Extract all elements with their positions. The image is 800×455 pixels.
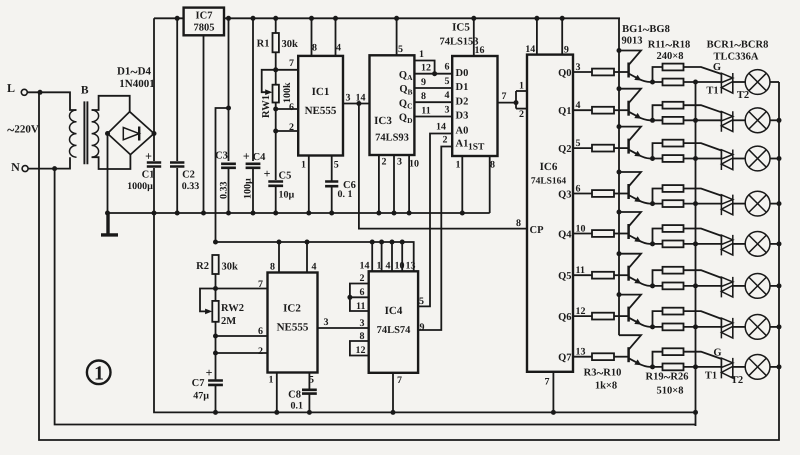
svg-text:Q2: Q2 bbox=[558, 144, 571, 155]
resistor R13 bbox=[663, 140, 684, 147]
svg-text:C3: C3 bbox=[215, 151, 228, 162]
wire R14 to BCR4 gate bbox=[684, 189, 722, 196]
node IC2 pin8 rail bbox=[277, 240, 282, 245]
svg-text:C2: C2 bbox=[182, 170, 195, 181]
wire R20 to BCR2 T1 bbox=[684, 119, 722, 121]
wire to IC1 pin 6 bbox=[276, 108, 299, 110]
transistor BG6 bbox=[627, 266, 630, 281]
wire IC2 pin 8 bbox=[278, 242, 280, 273]
svg-text:B: B bbox=[81, 85, 89, 97]
svg-text:1: 1 bbox=[377, 261, 382, 272]
capacitor C5 bbox=[268, 182, 283, 186]
svg-text:30k: 30k bbox=[282, 39, 299, 50]
wire to IC2 pin 2 bbox=[216, 352, 268, 354]
svg-text:8: 8 bbox=[421, 91, 426, 102]
svg-text:2: 2 bbox=[258, 346, 263, 357]
svg-text:R3~R10: R3~R10 bbox=[584, 365, 622, 380]
wire lamp 6 to rail bbox=[770, 285, 779, 287]
wire emitter to R18 bbox=[653, 352, 663, 367]
wire BG3 collector bbox=[619, 127, 641, 142]
node C3 gnd bbox=[226, 211, 231, 216]
capacitor C4 bbox=[246, 164, 261, 168]
node IC2 pin7 bbox=[213, 286, 218, 291]
svg-text:+: + bbox=[206, 366, 213, 380]
svg-text:C7: C7 bbox=[192, 378, 205, 389]
wire Q2 to base resistor bbox=[573, 147, 592, 149]
svg-text:G: G bbox=[713, 62, 721, 73]
node lamp 3 rail bbox=[777, 156, 782, 161]
svg-text:510×8: 510×8 bbox=[657, 386, 684, 397]
node C4 top rail bbox=[251, 16, 256, 21]
regulator IC7 box bbox=[184, 8, 224, 36]
wire IC6 pin 14 bbox=[536, 18, 538, 54]
wire RW2 wiper bbox=[200, 289, 216, 312]
svg-text:T1: T1 bbox=[706, 86, 718, 97]
node lamp 2 rail bbox=[777, 118, 782, 123]
resistor R7 bbox=[592, 230, 614, 237]
triac BCR7 bbox=[721, 318, 732, 339]
lamp 2 bbox=[745, 108, 770, 133]
wire BG6 emitter bbox=[629, 277, 663, 286]
node C6 gnd bbox=[329, 211, 334, 216]
svg-text:10µ: 10µ bbox=[279, 190, 295, 201]
wire IC5 pin 1 gnd bbox=[461, 156, 463, 213]
svg-text:0. 1: 0. 1 bbox=[338, 189, 353, 200]
svg-text:T2: T2 bbox=[737, 90, 749, 101]
svg-text:Q0: Q0 bbox=[558, 68, 571, 79]
svg-text:1: 1 bbox=[519, 81, 524, 92]
wire IC2 pin 5 to C8 bbox=[308, 373, 310, 389]
capacitor C2 bbox=[170, 163, 184, 167]
diode bar bbox=[138, 127, 140, 141]
svg-text:T1: T1 bbox=[705, 371, 717, 382]
svg-text:C8: C8 bbox=[288, 390, 301, 401]
wire IC1 pin 4 bbox=[335, 18, 337, 56]
node pin6 tie bbox=[347, 295, 352, 300]
resistor R22 bbox=[663, 200, 684, 207]
svg-text:+: + bbox=[243, 149, 250, 163]
svg-text:3: 3 bbox=[360, 318, 365, 329]
wire BG1 collector bbox=[619, 51, 641, 66]
resistor R26 bbox=[663, 364, 684, 371]
lamp 8 bbox=[745, 355, 770, 380]
wire bridge plus / C1 top bbox=[153, 18, 155, 161]
wire lamp 2 to rail bbox=[770, 119, 779, 121]
wire lamp 1 to rail bbox=[770, 81, 779, 83]
wire L line bottom L3 and lamp rail bbox=[39, 82, 779, 440]
node N branch bbox=[52, 166, 57, 171]
flip-flop IC4 box bbox=[369, 271, 418, 373]
lamp 3 bbox=[745, 146, 770, 171]
svg-text:A1: A1 bbox=[456, 139, 469, 150]
svg-text:+: + bbox=[264, 167, 271, 181]
wire R18 to BCR8 gate bbox=[684, 352, 722, 359]
wire BCR4 to lamp bbox=[733, 203, 745, 205]
svg-text:1: 1 bbox=[301, 160, 306, 171]
svg-text:74LS164: 74LS164 bbox=[531, 177, 567, 187]
capacitor C3 bbox=[221, 164, 236, 168]
node IC4 pin rail 381.6 bbox=[379, 240, 384, 245]
node L1 meets T1 rail bbox=[693, 410, 698, 415]
potentiometer RW2 bbox=[212, 301, 218, 322]
svg-text:IC5: IC5 bbox=[452, 22, 470, 34]
wire IC5 pin 16 Vcc bbox=[473, 18, 475, 56]
wire C5 to gnd bbox=[275, 186, 277, 213]
node row 4 T1 rail bbox=[693, 201, 698, 206]
wire top rail +5V (IC7 out) bbox=[224, 17, 620, 19]
svg-text:3: 3 bbox=[346, 93, 351, 104]
svg-text:8: 8 bbox=[270, 262, 275, 273]
wire R3 to base bbox=[614, 71, 629, 73]
svg-text:14: 14 bbox=[525, 44, 535, 55]
wire IC5 pin 7 out bbox=[498, 102, 517, 104]
svg-text:4: 4 bbox=[386, 261, 391, 272]
svg-text:7: 7 bbox=[397, 375, 402, 386]
svg-text:6: 6 bbox=[445, 62, 450, 73]
wire secondary bottom to bridge AC- bbox=[92, 155, 131, 169]
svg-text:Q3: Q3 bbox=[558, 189, 571, 200]
resistor R11 bbox=[663, 64, 684, 71]
wire to IC1 pin 7 bbox=[276, 69, 299, 71]
wire top rail left segment (bridge+ to IC7 in) bbox=[154, 17, 184, 19]
triac BCR4 bbox=[721, 195, 732, 216]
wire IC4 pin 7 to L1 bbox=[392, 373, 394, 413]
node ground rail left end bbox=[105, 211, 110, 216]
node IC7 gnd on rail bbox=[201, 211, 206, 216]
svg-text:Q6: Q6 bbox=[558, 312, 571, 323]
node IC3 pin5 rail bbox=[394, 16, 399, 21]
wire Q3 to base resistor bbox=[573, 193, 592, 195]
lamp 6 bbox=[745, 274, 770, 299]
svg-text:5: 5 bbox=[334, 160, 339, 171]
svg-text:~220V: ~220V bbox=[7, 122, 39, 137]
lamp 1 bbox=[745, 70, 770, 95]
node IC5 pin16 rail bbox=[471, 16, 476, 21]
svg-text:3: 3 bbox=[397, 157, 402, 168]
capacitor C6 bbox=[325, 182, 338, 187]
svg-text:7: 7 bbox=[289, 58, 294, 69]
svg-text:240×8: 240×8 bbox=[657, 51, 684, 62]
svg-text:9013: 9013 bbox=[622, 36, 643, 47]
node IC3 pin2 gnd bbox=[376, 211, 381, 216]
svg-text:6: 6 bbox=[360, 287, 365, 298]
diode symbol inside bridge bbox=[123, 128, 139, 140]
svg-text:8: 8 bbox=[516, 218, 521, 229]
svg-text:R2: R2 bbox=[196, 261, 209, 272]
wire IC3 pin 2 gnd bbox=[378, 155, 380, 213]
svg-text:12: 12 bbox=[421, 63, 431, 74]
node BG2 emitter junction bbox=[650, 118, 655, 123]
node C2 gnd bbox=[175, 211, 180, 216]
wire IC3 pin 3 gnd bbox=[393, 155, 395, 213]
node C3 stub bbox=[226, 106, 231, 111]
BG3 emitter arrow bbox=[634, 151, 641, 157]
svg-text:9: 9 bbox=[564, 45, 569, 56]
triac BCR2 bbox=[721, 111, 732, 132]
shift register IC6 box bbox=[527, 55, 573, 372]
wire emitter to R16 bbox=[653, 270, 663, 286]
node IC1 pin4 rail bbox=[333, 16, 338, 21]
svg-text:TLC336A: TLC336A bbox=[714, 52, 759, 63]
node IC1 pin1 gnd bbox=[306, 211, 311, 216]
wire emitter to R15 bbox=[653, 229, 663, 244]
resistor R9 bbox=[592, 313, 614, 320]
node R1 top rail bbox=[273, 16, 278, 21]
node IC6 pin7 L1 bbox=[551, 410, 556, 415]
wire IC4 pin 6 bbox=[350, 296, 369, 298]
BG6 emitter arrow bbox=[634, 278, 641, 284]
wire IC1 pin 5 to C6 bbox=[331, 156, 333, 181]
node IC3 pin10 gnd bbox=[407, 211, 412, 216]
svg-text:C1: C1 bbox=[142, 170, 155, 181]
node BG7 emitter junction bbox=[650, 324, 655, 329]
wire IC7 ground pin bbox=[203, 35, 205, 213]
wire emitter to R12 bbox=[653, 105, 663, 120]
svg-text:IC6: IC6 bbox=[540, 161, 558, 173]
wire bridge minus to ground rail bbox=[107, 134, 109, 214]
svg-text:9: 9 bbox=[421, 77, 426, 88]
node lower rail feed bbox=[213, 240, 218, 245]
node BG1 emitter junction bbox=[650, 80, 655, 85]
svg-text:7805: 7805 bbox=[194, 23, 215, 34]
svg-text:R1: R1 bbox=[257, 39, 270, 50]
node IC2 pin2 bbox=[213, 351, 218, 356]
terminal L bbox=[21, 89, 27, 95]
wire RW1 bottom to pin6/pin2/C5 bbox=[275, 103, 277, 181]
node C5 gnd bbox=[273, 211, 278, 216]
wire R9 to base bbox=[614, 315, 629, 317]
svg-text:14: 14 bbox=[360, 261, 370, 272]
wire BCR5 to lamp bbox=[733, 243, 745, 245]
svg-text:7: 7 bbox=[545, 377, 550, 388]
wire IC3 pin 5 Vcc bbox=[396, 18, 398, 55]
transistor BG4 bbox=[627, 184, 630, 199]
svg-text:74LS93: 74LS93 bbox=[375, 133, 409, 144]
resistor R16 bbox=[663, 267, 684, 274]
triac BCR5 bbox=[721, 235, 732, 256]
resistor R6 bbox=[592, 190, 614, 197]
svg-text:5: 5 bbox=[419, 296, 424, 307]
wire R4 to base bbox=[614, 109, 629, 111]
svg-text:T2: T2 bbox=[731, 375, 743, 386]
svg-text:11: 11 bbox=[356, 301, 365, 312]
node BG8 emitter junction bbox=[650, 364, 655, 369]
svg-text:74LS153: 74LS153 bbox=[439, 37, 478, 48]
wire R2 bottom bbox=[215, 274, 217, 301]
BG7 emitter arrow bbox=[634, 319, 641, 325]
resistor R19 bbox=[663, 79, 684, 86]
node BG3 emitter junction bbox=[650, 156, 655, 161]
wire IC4 pin8-pin12 tie bbox=[350, 341, 369, 356]
node IC1 pin7 bbox=[273, 67, 278, 72]
triac BCR1 bbox=[721, 73, 732, 94]
transformer B core bbox=[84, 101, 87, 164]
wire RW2 bottom bbox=[215, 322, 217, 380]
svg-text:RW1: RW1 bbox=[261, 95, 272, 118]
wire emitter to R13 bbox=[653, 143, 663, 158]
resistor R24 bbox=[663, 283, 684, 290]
svg-text:D1: D1 bbox=[456, 82, 469, 93]
wire lamp 3 to rail bbox=[770, 158, 779, 160]
wire Q4 to base resistor bbox=[573, 233, 592, 235]
resistor R4 bbox=[592, 107, 614, 114]
wire L to transformer primary top bbox=[27, 92, 76, 110]
wire R17 to BCR7 gate bbox=[684, 311, 722, 319]
terminal N bbox=[22, 166, 28, 172]
RW2 wiper arrow bbox=[205, 309, 212, 315]
wire C4 top bbox=[252, 18, 254, 161]
wire R7 to base bbox=[614, 233, 629, 235]
wire R21 to BCR3 T1 bbox=[684, 158, 722, 160]
wire R15 to BCR5 gate bbox=[684, 229, 722, 236]
svg-text:L: L bbox=[7, 81, 15, 95]
wire R6 to base bbox=[614, 193, 629, 195]
node BG7 collector rail bbox=[617, 292, 622, 297]
wire BG2 collector bbox=[619, 89, 641, 104]
svg-text:Q7: Q7 bbox=[558, 353, 571, 364]
svg-text:8: 8 bbox=[312, 43, 317, 54]
svg-text:Q1: Q1 bbox=[558, 106, 571, 117]
node lamp 7 rail bbox=[777, 324, 782, 329]
resistor R1 bbox=[273, 33, 279, 52]
svg-text:IC3: IC3 bbox=[374, 115, 392, 127]
wire BG5 emitter bbox=[629, 235, 663, 244]
bridge rectifier D1~D4 diamond bbox=[108, 112, 155, 155]
wire QA to D0 bbox=[414, 73, 452, 75]
resistor R15 bbox=[663, 225, 684, 232]
transistor BG3 bbox=[627, 139, 630, 154]
wire IC6 pin 7 to L1 bbox=[552, 372, 554, 413]
svg-text:8: 8 bbox=[360, 331, 365, 342]
wire C4 bottom bbox=[252, 168, 254, 213]
svg-text:9: 9 bbox=[420, 322, 425, 333]
svg-text:2: 2 bbox=[519, 109, 524, 120]
node IC5 pin1 gnd bbox=[460, 211, 465, 216]
resistor R23 bbox=[663, 241, 684, 248]
wire R26 to BCR8 T1 bbox=[684, 366, 722, 368]
capacitor C7 bbox=[208, 381, 223, 385]
svg-text:1k×8: 1k×8 bbox=[595, 381, 617, 392]
svg-text:8: 8 bbox=[490, 160, 495, 171]
svg-text:7: 7 bbox=[502, 91, 507, 102]
BG4 emitter arrow bbox=[634, 196, 641, 202]
wire IC3 pin 1 feedback bbox=[414, 61, 434, 74]
wire lamp 4 to rail bbox=[770, 203, 779, 205]
svg-text:0.33: 0.33 bbox=[219, 182, 230, 200]
svg-text:5: 5 bbox=[445, 76, 450, 87]
node BG6 emitter junction bbox=[650, 283, 655, 288]
wire C3 top bbox=[228, 18, 230, 161]
transistor BG1 bbox=[627, 63, 630, 78]
svg-text:30k: 30k bbox=[222, 262, 239, 273]
wire to IC2 pin 6 bbox=[216, 335, 268, 337]
wire BCR1 to lamp bbox=[733, 81, 745, 83]
capacitor C1 bbox=[147, 163, 161, 167]
wire R16 to BCR6 gate bbox=[684, 270, 722, 278]
node IC1 pin6 bbox=[273, 107, 278, 112]
transistor BG2 bbox=[627, 101, 630, 116]
node row 5 T1 rail bbox=[693, 241, 698, 246]
svg-text:3: 3 bbox=[445, 104, 450, 115]
node BG4 collector rail bbox=[617, 170, 622, 175]
svg-text:1: 1 bbox=[456, 160, 461, 171]
svg-text:RW2: RW2 bbox=[221, 303, 244, 314]
lamp 4 bbox=[745, 191, 770, 216]
resistor R21 bbox=[663, 155, 684, 162]
svg-text:BCR1~BCR8: BCR1~BCR8 bbox=[707, 37, 769, 52]
wire IC6 pin 9 bbox=[561, 18, 563, 54]
lamp 7 bbox=[745, 315, 770, 340]
svg-text:A0: A0 bbox=[456, 125, 469, 136]
svg-text:4: 4 bbox=[445, 90, 450, 101]
wire ground rail bbox=[108, 212, 490, 214]
resistor R17 bbox=[663, 308, 684, 315]
BG5 emitter arrow bbox=[634, 236, 641, 242]
svg-text:10: 10 bbox=[395, 261, 405, 272]
svg-text:0.1: 0.1 bbox=[291, 401, 304, 412]
svg-text:13: 13 bbox=[406, 261, 416, 272]
wire N line bottom L2 bbox=[55, 169, 696, 425]
wire to IC6 pin 1 bbox=[516, 90, 527, 92]
node C2 top rail bbox=[175, 16, 180, 21]
resistor R12 bbox=[663, 102, 684, 109]
svg-text:CP: CP bbox=[530, 225, 545, 236]
wire IC2 pin 1 to L1 bbox=[276, 373, 278, 413]
wire IC1 pin 8 bbox=[311, 18, 313, 56]
wire C8 to L1 bbox=[308, 394, 310, 413]
node QA feedback bbox=[432, 71, 437, 76]
wire BCR6 to lamp bbox=[733, 285, 745, 287]
multiplexer IC5 box bbox=[452, 56, 497, 156]
svg-text:1: 1 bbox=[419, 49, 424, 60]
wire IC4 top pin at 402.2 bbox=[401, 242, 403, 271]
wire BG2 emitter bbox=[629, 112, 663, 121]
svg-text:5: 5 bbox=[309, 375, 314, 386]
wire lamp 7 to rail bbox=[770, 326, 779, 328]
wire IC4 top pin at 392.0 bbox=[391, 242, 393, 271]
node row 7 T1 rail bbox=[693, 324, 698, 329]
svg-text:2: 2 bbox=[289, 122, 294, 133]
wire IC4 top pin at 381.6 bbox=[381, 242, 383, 271]
node IC4 pin7 L1 bbox=[391, 410, 396, 415]
node lamp 4 rail bbox=[777, 201, 782, 206]
wire BCR2 to lamp bbox=[733, 119, 745, 121]
resistor R14 bbox=[663, 185, 684, 192]
wire R5 to base bbox=[614, 147, 629, 149]
svg-text:C4: C4 bbox=[253, 152, 267, 163]
wire R23 to BCR5 T1 bbox=[684, 243, 722, 245]
svg-text:N: N bbox=[11, 160, 20, 174]
node IC3 pin3 gnd bbox=[392, 211, 397, 216]
node lamp 6 rail bbox=[777, 283, 782, 288]
svg-text:2: 2 bbox=[382, 157, 387, 168]
node IC2 pin1 L1 bbox=[274, 410, 279, 415]
wire IC4 pin2-pin6-pin11 tie bbox=[350, 284, 369, 312]
wire R13 to BCR3 gate bbox=[684, 143, 722, 150]
svg-text:1ST: 1ST bbox=[468, 143, 485, 153]
wire R25 to BCR7 T1 bbox=[684, 326, 722, 328]
svg-text:2: 2 bbox=[443, 134, 448, 145]
transistor BG7 bbox=[627, 307, 630, 322]
node IC4 pin rail 392.0 bbox=[390, 240, 395, 245]
resistor R8 bbox=[592, 272, 614, 279]
wire BCR3 to lamp bbox=[733, 158, 745, 160]
capacitor C8 bbox=[302, 390, 317, 394]
triac BCR3 bbox=[721, 150, 732, 171]
node row 6 T1 rail bbox=[693, 283, 698, 288]
node C3 top rail bbox=[226, 16, 231, 21]
svg-text:IC4: IC4 bbox=[385, 305, 403, 317]
